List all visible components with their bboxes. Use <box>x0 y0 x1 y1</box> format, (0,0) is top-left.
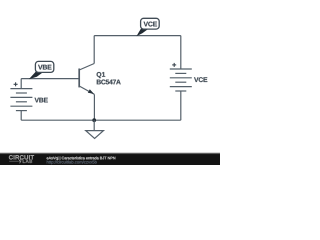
emitter arrowhead <box>88 89 94 94</box>
label BC547A <box>97 80 121 85</box>
label VCE (battery value) <box>194 77 207 82</box>
label Q1 <box>97 72 106 78</box>
flag VBE probe <box>29 61 54 79</box>
wire V2 bottom stub <box>180 91 182 120</box>
flag VCE probe <box>136 18 159 36</box>
footer title text <box>47 157 116 165</box>
CircuitLab logo <box>9 155 34 163</box>
wire top net (node VCE) <box>94 35 181 37</box>
wire V1 bottom stub <box>20 111 22 121</box>
emitter diagonal <box>79 86 94 94</box>
label VBE (battery value) <box>35 98 48 103</box>
wire V1+ to Q1 base (node VBE) <box>21 78 79 80</box>
base bar <box>78 69 80 88</box>
plus sign of V1 <box>14 82 18 86</box>
transistor Q1 BC547A (NPN) <box>79 64 94 95</box>
wire Q1 collector lead <box>93 36 95 64</box>
battery V1 (VBE source) plates <box>10 89 32 111</box>
collector diagonal <box>79 64 94 71</box>
footer url text <box>47 160 97 164</box>
wire Q1 emitter lead <box>93 94 95 120</box>
junction node (emitter / ground / bottom net) <box>92 118 96 122</box>
wire V2 top stub <box>180 36 182 69</box>
ground <box>86 120 104 138</box>
wire bottom ground net <box>21 119 181 121</box>
battery V2 (VCE source) plates <box>170 69 192 91</box>
plus sign of V2 <box>172 63 176 67</box>
wire V1 top stub <box>20 79 22 89</box>
